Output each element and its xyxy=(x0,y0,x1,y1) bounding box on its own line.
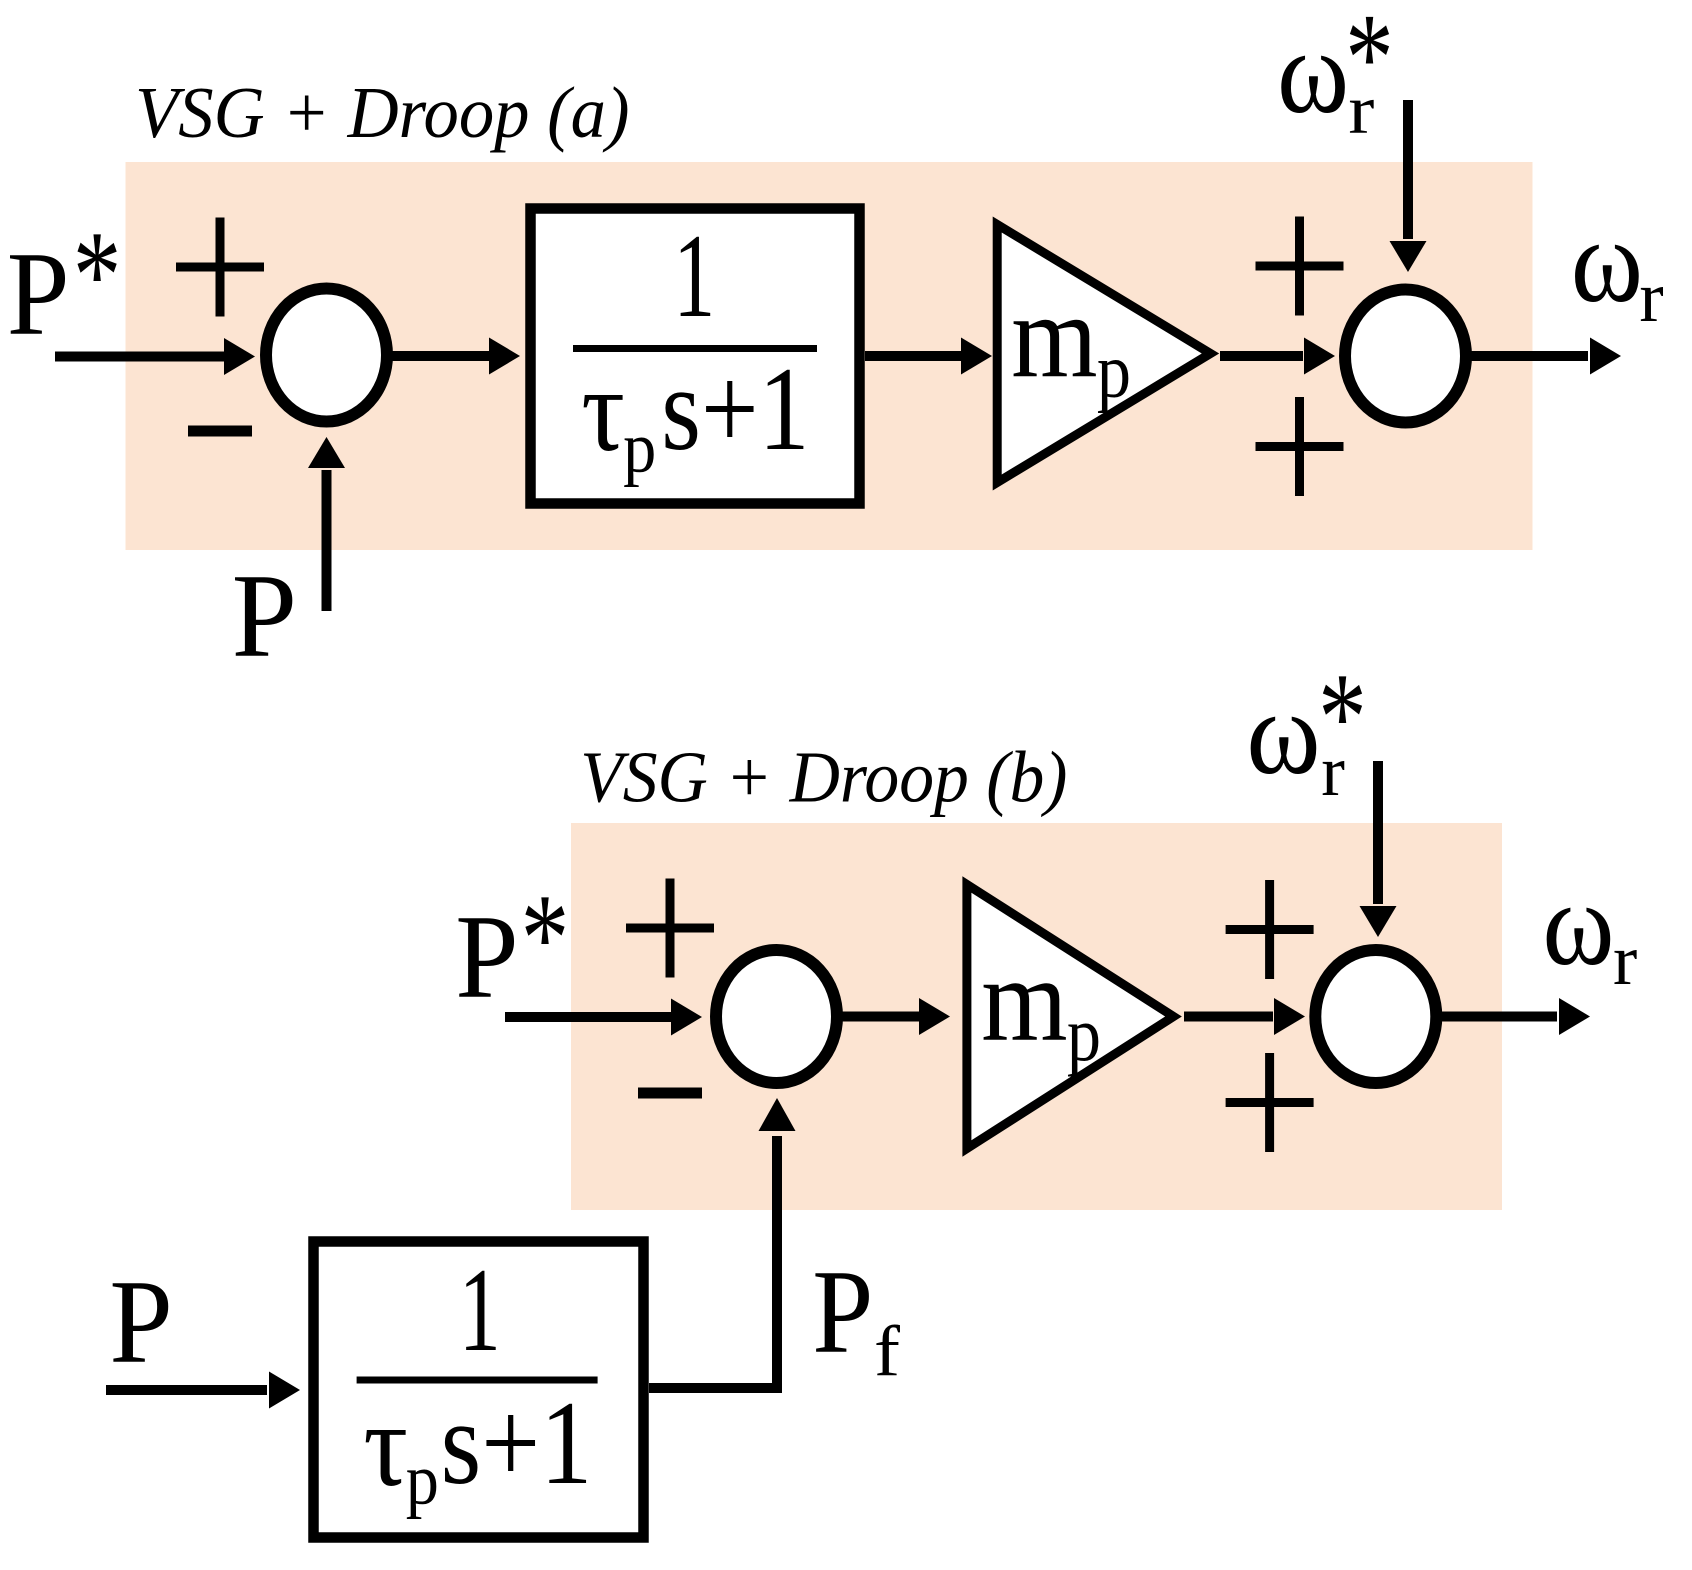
wire: P* input arrow into summing junction S3 (b) xyxy=(505,999,702,1036)
reference label omega_r* (b) xyxy=(1246,647,1366,811)
svg-text:r: r xyxy=(1613,921,1637,1000)
svg-text:p: p xyxy=(1067,991,1101,1077)
gain block mp (b) xyxy=(967,885,1174,1149)
wire: omega_r* arrow down into S2 (a) xyxy=(1390,100,1427,272)
svg-text:m: m xyxy=(981,934,1067,1067)
svg-text:P: P xyxy=(455,891,518,1023)
wire: S2 output arrow (a) xyxy=(1470,338,1621,375)
svg-text:1: 1 xyxy=(673,211,715,343)
svg-text:m: m xyxy=(1011,271,1097,404)
svg-text:P: P xyxy=(109,1256,172,1388)
transfer function block 1/(tau_p s+1) (a) xyxy=(531,209,860,504)
svg-text:f: f xyxy=(874,1312,901,1392)
summing junction S1 xyxy=(266,289,387,422)
svg-text:ω: ω xyxy=(1571,195,1643,328)
plus sign at S3 upper input (b) xyxy=(626,879,714,978)
plus sign at S2 upper input (a) xyxy=(1256,217,1344,316)
wire: S1 to filter block (a) xyxy=(391,338,520,375)
svg-text:p: p xyxy=(623,407,656,487)
wire: gain mp to summing junction S2 (a) xyxy=(1220,338,1335,375)
input label P* (a) xyxy=(7,205,122,360)
svg-text:p: p xyxy=(406,1439,439,1519)
wire: P* input arrow into summing junction S1 xyxy=(55,338,255,375)
svg-text:*: * xyxy=(73,205,122,345)
wire: gain mp to summing junction S4 (b) xyxy=(1184,998,1305,1035)
plus sign at S1 upper input xyxy=(176,218,264,317)
wire: P feedback arrow up into S1 xyxy=(308,437,345,611)
gain block mp (a) xyxy=(997,225,1210,483)
input label P* (b) xyxy=(455,868,569,1023)
title label VSG + Droop (b) xyxy=(580,737,1067,818)
svg-text:ω: ω xyxy=(1277,5,1349,138)
svg-text:s+1: s+1 xyxy=(441,1377,593,1509)
summing junction S3 (b) xyxy=(716,950,837,1083)
summing junction S2 (a) xyxy=(1345,290,1466,423)
plus sign at S4 upper input (b) xyxy=(1226,880,1314,979)
svg-text:ω: ω xyxy=(1542,857,1614,990)
filtered power label Pf (b) xyxy=(812,1246,901,1392)
svg-text:p: p xyxy=(1097,327,1131,413)
output label omega_r (b) xyxy=(1542,857,1637,999)
svg-text:1: 1 xyxy=(459,1245,501,1377)
wire: S3 to gain mp (b) xyxy=(841,998,950,1035)
plus sign at S4 lower input (b) xyxy=(1226,1053,1314,1152)
svg-text:VSG + Droop (b): VSG + Droop (b) xyxy=(580,737,1067,818)
svg-text:τ: τ xyxy=(363,1379,408,1512)
shaded background region VSG+Droop (a) xyxy=(126,162,1533,550)
title label VSG + Droop (a) xyxy=(135,72,629,153)
input label P (b) xyxy=(109,1256,172,1388)
wire: filter block to gain mp (a) xyxy=(865,338,992,375)
svg-text:τ: τ xyxy=(581,343,625,476)
minus sign at S1 lower input xyxy=(188,426,252,437)
svg-text:r: r xyxy=(1639,256,1663,337)
svg-text:r: r xyxy=(1348,71,1374,148)
svg-text:P: P xyxy=(812,1246,873,1379)
wire: omega_r* arrow down into S4 (b) xyxy=(1360,761,1397,937)
wire: S4 output arrow (b) xyxy=(1440,998,1590,1035)
feedback label P (a) xyxy=(232,549,297,682)
wire: P input arrow into filter block (b) xyxy=(106,1372,300,1409)
reference label omega_r* (a) xyxy=(1277,0,1394,148)
svg-text:P: P xyxy=(232,549,297,682)
svg-text:*: * xyxy=(521,868,570,1008)
svg-text:P: P xyxy=(7,228,70,361)
plus sign at S2 lower input (a) xyxy=(1256,397,1344,496)
transfer function block 1/(tau_p s+1) (b) xyxy=(314,1242,644,1538)
svg-text:VSG + Droop (a): VSG + Droop (a) xyxy=(135,72,629,153)
output label omega_r (a) xyxy=(1571,195,1664,337)
svg-text:s+1: s+1 xyxy=(661,343,809,476)
svg-text:r: r xyxy=(1321,732,1345,811)
svg-text:ω: ω xyxy=(1246,667,1320,800)
minus sign at S3 lower input (b) xyxy=(638,1088,702,1099)
shaded background region VSG+Droop (b) xyxy=(571,823,1502,1210)
wire: filter output routed up into S3 with arrow (b) xyxy=(649,1098,796,1388)
summing junction S4 (b) xyxy=(1315,950,1436,1083)
